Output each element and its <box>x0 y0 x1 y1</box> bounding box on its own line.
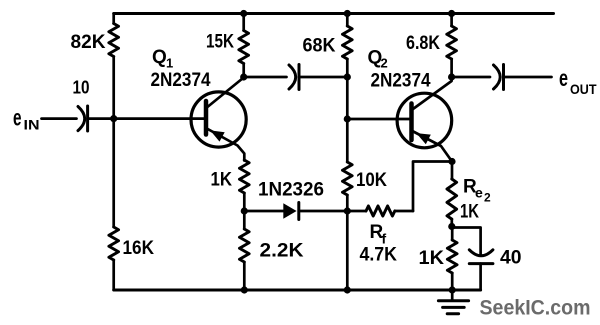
svg-text:Q: Q <box>152 47 167 68</box>
svg-text:OUT: OUT <box>570 82 597 97</box>
wire emitter node to feedback branch <box>413 162 452 212</box>
wire bypass cap bottom lead <box>479 264 482 290</box>
wire 1K bottom to diode node <box>243 193 246 211</box>
wire 68K top stem <box>346 14 349 27</box>
transistor Q2 emitter lead <box>412 131 452 162</box>
wire 1K bottom stem <box>451 228 454 241</box>
resistor 6.8K <box>447 26 457 59</box>
svg-text:16K: 16K <box>123 238 155 259</box>
junction node top rail at 68K <box>344 10 351 17</box>
wire diode anode lead <box>244 210 283 213</box>
svg-text:2: 2 <box>484 191 491 205</box>
capacitor 10 straight plate <box>86 106 89 131</box>
junction node diode anode <box>241 207 248 214</box>
svg-text:82K: 82K <box>71 32 106 53</box>
resistor 15K <box>239 31 249 64</box>
svg-text:15K: 15K <box>206 32 234 53</box>
wire left column bottom segment <box>112 260 115 290</box>
resistor 1K emitter Q1 <box>240 160 250 193</box>
svg-text:e: e <box>559 65 568 91</box>
junction node diode cathode Rf <box>344 207 351 214</box>
wire coupling cap to 68K node <box>299 76 347 79</box>
svg-text:4.7K: 4.7K <box>360 245 398 266</box>
junction node top rail at 6.8K <box>448 10 455 17</box>
capacitor coupling curved plate <box>289 65 296 89</box>
wire Q1 collector node to coupling cap <box>244 76 287 79</box>
wire output cap to eOUT <box>504 76 552 79</box>
svg-text:2N2374: 2N2374 <box>151 70 211 91</box>
transistor Q1 circle <box>191 92 246 147</box>
wire 68K bottom lead <box>346 59 349 77</box>
svg-text:1K: 1K <box>460 202 479 223</box>
resistor 1K emitter Q2 <box>447 240 457 273</box>
capacitor 40 curved plate <box>469 250 493 256</box>
svg-text:68K: 68K <box>303 36 336 57</box>
wire Re2 top stem <box>451 162 454 180</box>
resistor 2.2K <box>240 229 250 262</box>
diode 1N2326 triangle <box>283 203 296 218</box>
junction node Q2 base <box>344 115 351 122</box>
wire Q2 collector node to output cap <box>452 76 490 79</box>
svg-text:10K: 10K <box>356 170 387 191</box>
transistor Q2 base bar <box>409 104 414 141</box>
svg-text:IN: IN <box>24 118 40 133</box>
wire Re2 bottom lead <box>450 219 453 226</box>
wire capacitor 10 to node <box>88 117 114 120</box>
svg-text:6.8K: 6.8K <box>406 33 440 54</box>
transistor Q2 emitter arrow <box>416 133 431 144</box>
junction node 68K bottom <box>344 73 351 80</box>
junction node bottom rail at ground <box>449 286 456 293</box>
transistor Q1 collector lead <box>207 78 244 108</box>
capacitor coupling straight plate <box>298 65 301 90</box>
wire top supply rail <box>114 12 554 15</box>
wire left column top segment <box>112 14 115 24</box>
wire 1K to ground rail <box>451 273 454 290</box>
svg-text:SeekIC.com: SeekIC.com <box>480 297 591 320</box>
resistor 10K <box>342 162 352 195</box>
wire bypass cap top branch <box>452 228 481 255</box>
transistor Q2 collector lead <box>412 77 451 110</box>
wire Q2 base lead <box>347 118 409 121</box>
junction node Re2 bottom <box>448 223 455 230</box>
capacitor 40 straight plate <box>469 262 493 265</box>
junction node Q1 collector <box>240 73 247 80</box>
wire Q1 emitter to 1K <box>243 159 246 162</box>
junction node top rail at 15K <box>240 10 247 17</box>
junction node bottom rail at 2.2K <box>241 286 248 293</box>
wire input lead <box>42 117 77 120</box>
svg-text:1K: 1K <box>419 248 445 269</box>
resistor 82K <box>109 24 119 57</box>
wire middle column lower segment <box>346 195 349 290</box>
wire 6.8K top stem <box>450 14 453 27</box>
svg-text:2: 2 <box>381 56 388 71</box>
wire Q1 base lead <box>114 117 204 120</box>
transistor Q2 circle <box>397 93 452 148</box>
svg-text:e: e <box>475 185 483 201</box>
diode 1N2326 cathode bar <box>297 203 300 220</box>
svg-text:1N2326: 1N2326 <box>258 180 324 201</box>
ground symbol stem <box>451 290 454 300</box>
capacitor output straight plate <box>502 65 505 90</box>
ground symbol bars <box>438 301 468 314</box>
wire 15K top stem <box>242 14 245 31</box>
wire left column middle segment <box>112 57 115 228</box>
wire Rf to vertical riser <box>395 210 413 213</box>
capacitor output curved plate <box>494 65 501 89</box>
wire 2.2K bottom lead <box>243 262 246 290</box>
svg-text:1: 1 <box>166 56 173 71</box>
svg-text:e: e <box>13 105 22 131</box>
wire bottom ground rail <box>114 289 481 292</box>
transistor Q1 emitter lead <box>207 129 245 161</box>
wire 2.2K top stem <box>243 211 246 229</box>
svg-text:40: 40 <box>500 248 522 269</box>
resistor 68K <box>342 26 352 59</box>
junction node Q2 emitter <box>448 158 455 165</box>
junction node Q2 collector <box>448 73 455 80</box>
svg-text:10: 10 <box>73 78 90 98</box>
capacitor 10 curved plate <box>78 107 85 131</box>
junction node bottom rail at 10K <box>344 286 351 293</box>
wire diode cathode lead <box>299 210 348 213</box>
svg-text:2N2374: 2N2374 <box>371 71 431 92</box>
resistor 16K <box>109 227 119 260</box>
svg-text:1K: 1K <box>211 170 233 191</box>
junction node input <box>110 115 117 122</box>
wire 6.8K bottom lead <box>450 59 453 77</box>
wire 15K bottom lead <box>242 64 245 78</box>
resistor Rf 4.7K <box>366 206 395 216</box>
transistor Q1 emitter arrow <box>210 130 225 141</box>
resistor Re2 1K <box>447 179 457 219</box>
wire middle column upper segment <box>346 77 349 162</box>
wire diode node to Rf <box>347 210 366 213</box>
transistor Q1 base bar <box>204 101 209 135</box>
svg-text:2.2K: 2.2K <box>260 241 304 262</box>
